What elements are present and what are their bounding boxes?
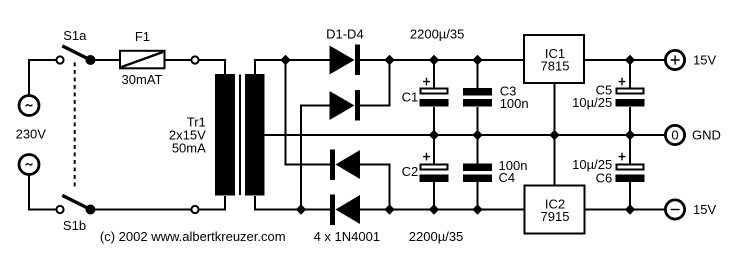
svg-text:7915: 7915 — [541, 209, 570, 224]
svg-text:2200µ/35: 2200µ/35 — [409, 229, 463, 244]
svg-text:15V: 15V — [693, 52, 716, 67]
svg-text:7815: 7815 — [541, 59, 570, 74]
svg-text:C2: C2 — [402, 164, 419, 179]
svg-text:GND: GND — [692, 128, 721, 143]
svg-text:2200µ/35: 2200µ/35 — [410, 27, 464, 42]
svg-text:F1: F1 — [135, 29, 150, 44]
svg-text:15V: 15V — [693, 202, 716, 217]
svg-text:0: 0 — [671, 128, 678, 143]
svg-text:30mAT: 30mAT — [122, 72, 163, 87]
svg-text:100n: 100n — [500, 96, 529, 111]
svg-text:C4: C4 — [499, 170, 516, 185]
svg-text:(c) 2002 www.albertkreuzer.com: (c) 2002 www.albertkreuzer.com — [100, 229, 286, 244]
svg-text:230V: 230V — [16, 127, 47, 142]
svg-text:S1b: S1b — [63, 218, 86, 233]
svg-text:C6: C6 — [596, 170, 613, 185]
svg-text:C1: C1 — [402, 90, 419, 105]
svg-text:50mA: 50mA — [172, 141, 206, 156]
svg-text:D1-D4: D1-D4 — [326, 27, 364, 42]
svg-text:10µ/25: 10µ/25 — [572, 95, 612, 110]
svg-text:4 x 1N4001: 4 x 1N4001 — [314, 229, 381, 244]
svg-text:S1a: S1a — [63, 28, 87, 43]
